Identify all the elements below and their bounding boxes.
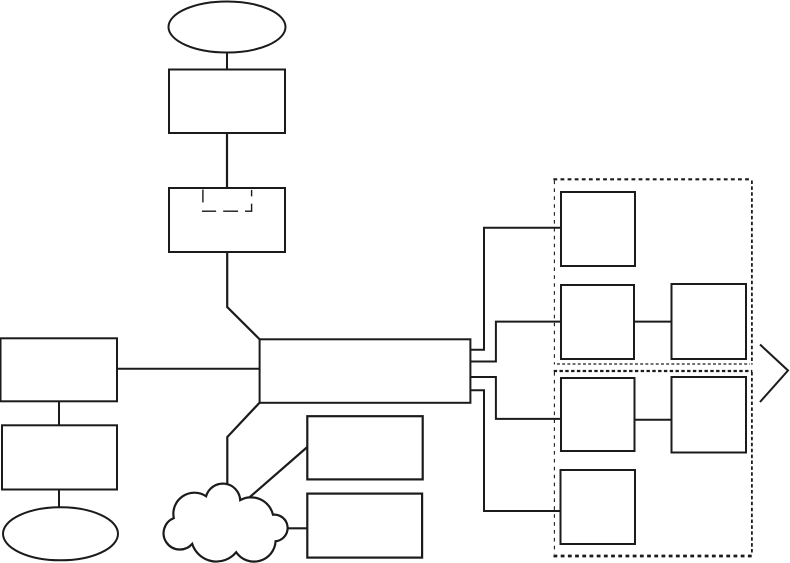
box B1 (169, 70, 285, 134)
wire B2 to central box (227, 252, 260, 340)
lower small box (307, 494, 422, 558)
square S6 (561, 470, 636, 544)
wire central box to cloud (227, 402, 260, 484)
box B2 (169, 188, 285, 252)
dashed group frame upper (553, 179, 752, 364)
square S3 (672, 284, 747, 359)
square S1 (561, 192, 635, 266)
central box (260, 339, 471, 403)
wire S4 to S5 (635, 419, 672, 421)
wire A to B (58, 401, 60, 425)
wire cloud to upper small box (249, 447, 307, 498)
square S4 (561, 378, 635, 451)
wire cloud to lower small box (288, 527, 307, 529)
dashed notch inside B2 (202, 190, 252, 212)
wire B1 to B2 (226, 133, 228, 188)
wire central to S6 (470, 390, 560, 511)
wire central to S1 (470, 228, 561, 350)
square S5 (672, 377, 747, 453)
square S2 (561, 285, 634, 359)
dashed group frame lower (554, 371, 753, 556)
wire S2 to S3 (634, 321, 672, 323)
box A left (1, 338, 118, 401)
wire B to ellipse (58, 490, 60, 509)
chevron arrow (760, 345, 788, 403)
box B left (2, 425, 117, 489)
wire central to S4 (470, 377, 561, 419)
wire ellipse to box B1 (226, 53, 228, 70)
wire A to central box (117, 368, 260, 370)
wire central to S2 (470, 322, 561, 362)
upper small box (307, 416, 422, 479)
terminator ellipse top (169, 2, 286, 53)
cloud (164, 484, 288, 562)
terminator ellipse bottom-left (3, 507, 118, 560)
